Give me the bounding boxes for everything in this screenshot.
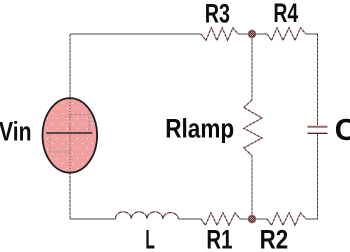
wire: bottom rail R1 to R2 through node <box>240 218 267 220</box>
svg-text:C: C <box>335 112 350 147</box>
wire: left vertical below source <box>69 172 71 219</box>
svg-text:R1: R1 <box>206 225 232 252</box>
node between R3 and R4 (top junction) <box>247 29 256 38</box>
resistor Rlamp <box>244 100 262 156</box>
wire: bottom rail R2 to right corner <box>306 218 318 220</box>
resistor R4 <box>267 28 306 41</box>
resistor R2 <box>267 213 306 226</box>
capacitor C <box>308 126 328 133</box>
wire: top rail R3 to R4 through node <box>238 33 267 35</box>
svg-text:Rlamp: Rlamp <box>165 114 234 144</box>
wire: bottom rail L to R1 <box>179 218 202 220</box>
resistor R3 <box>201 28 238 41</box>
resistor R1 <box>201 213 240 226</box>
wire: right vertical top to capacitor <box>317 34 319 126</box>
inductor L <box>115 212 178 219</box>
svg-text:R3: R3 <box>205 0 230 29</box>
svg-text:R4: R4 <box>273 0 298 28</box>
wire: right vertical capacitor to bottom <box>317 134 319 220</box>
wire: bottom rail left corner to L <box>70 218 115 220</box>
wire: top rail R4 to right corner <box>306 33 318 35</box>
wire: middle vertical node to Rlamp <box>251 34 253 100</box>
wire: middle vertical Rlamp to node <box>251 156 253 220</box>
svg-text:Vin: Vin <box>0 117 32 147</box>
svg-text:L: L <box>145 225 155 252</box>
svg-text:R2: R2 <box>260 225 289 252</box>
source Vin (sine/pulse source ellipse with wave symbol) <box>43 98 98 173</box>
node between R1 and R2 (bottom junction) <box>247 214 256 223</box>
wire: left vertical above source <box>69 34 71 98</box>
wire: top rail from left corner to R3 <box>70 33 201 35</box>
